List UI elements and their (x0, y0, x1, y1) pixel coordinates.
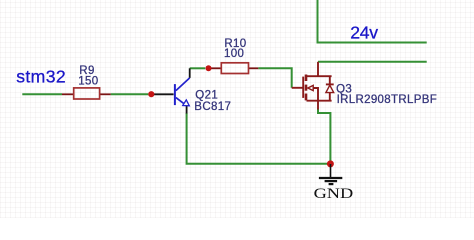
svg-text:GND: GND (314, 185, 354, 202)
svg-text:BC817: BC817 (194, 101, 231, 113)
svg-text:150: 150 (78, 76, 98, 88)
svg-text:Q21: Q21 (195, 89, 218, 101)
svg-text:IRLR2908TRLPBF: IRLR2908TRLPBF (337, 94, 438, 106)
svg-text:24v: 24v (350, 23, 378, 43)
svg-text:100: 100 (224, 48, 244, 60)
svg-text:stm32: stm32 (16, 67, 65, 87)
